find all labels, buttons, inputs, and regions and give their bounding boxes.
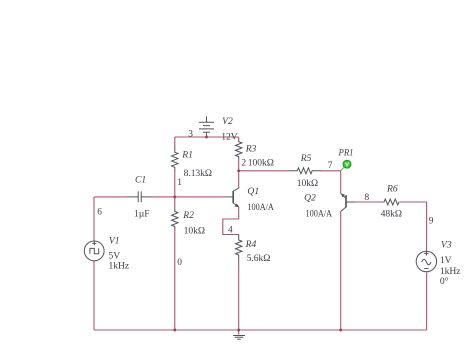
svg-text:4: 4: [228, 226, 233, 236]
svg-text:R6: R6: [386, 184, 398, 195]
svg-text:6: 6: [97, 208, 102, 218]
svg-text:1kHz: 1kHz: [109, 260, 130, 271]
svg-text:5.6kΩ: 5.6kΩ: [247, 253, 271, 264]
svg-text:V2: V2: [222, 116, 233, 127]
svg-text:10kΩ: 10kΩ: [297, 178, 318, 189]
svg-text:9: 9: [429, 217, 434, 227]
svg-text:0: 0: [177, 258, 182, 268]
svg-text:100A/A: 100A/A: [247, 202, 274, 213]
svg-text:R3: R3: [245, 143, 257, 154]
svg-text:100kΩ: 100kΩ: [248, 157, 274, 168]
svg-text:V1: V1: [109, 236, 120, 247]
svg-text:Q2: Q2: [304, 193, 316, 204]
svg-text:R5: R5: [300, 153, 312, 164]
svg-text:12V: 12V: [221, 132, 237, 143]
svg-text:2: 2: [241, 158, 246, 168]
svg-text:10kΩ: 10kΩ: [184, 225, 205, 236]
svg-text:1: 1: [177, 178, 182, 188]
svg-text:1V: 1V: [440, 255, 452, 266]
svg-text:100A/A: 100A/A: [306, 209, 333, 220]
svg-text:V3: V3: [441, 240, 452, 251]
svg-text:48kΩ: 48kΩ: [381, 209, 402, 220]
svg-text:PR1: PR1: [338, 148, 354, 159]
svg-text:0°: 0°: [440, 276, 449, 287]
svg-text:8: 8: [365, 193, 370, 203]
svg-text:R1: R1: [181, 150, 193, 161]
svg-text:3: 3: [188, 129, 193, 139]
svg-text:7: 7: [328, 161, 333, 171]
svg-text:R4: R4: [245, 239, 257, 250]
svg-text:C1: C1: [135, 175, 146, 186]
svg-text:Q1: Q1: [247, 186, 259, 197]
svg-text:8.13kΩ: 8.13kΩ: [184, 168, 212, 179]
svg-text:R2: R2: [182, 210, 194, 221]
svg-text:1µF: 1µF: [134, 208, 150, 219]
